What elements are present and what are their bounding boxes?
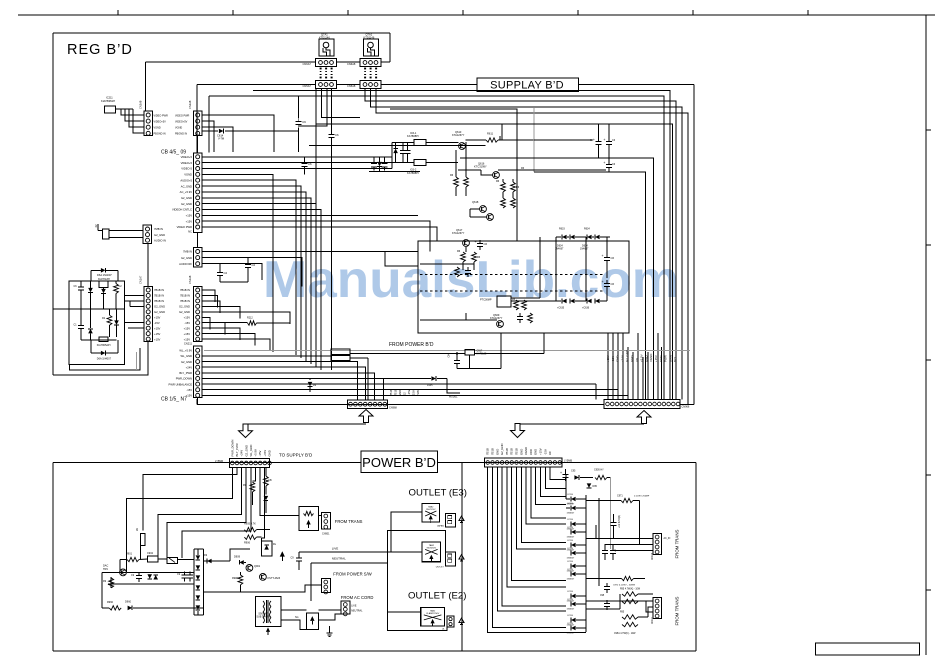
connector CN1A8 (194, 287, 203, 342)
svg-text:+15V: +15V (606, 355, 610, 362)
svg-text:1N4667: 1N4667 (567, 513, 575, 515)
capacitor C612 (331, 131, 333, 134)
svg-text:C6: C6 (308, 162, 312, 166)
resistor R906 (244, 535, 256, 539)
wire inlet row (420, 353, 465, 355)
svg-text:VIDEO+5: VIDEO+5 (181, 155, 193, 159)
svg-text:AC_GND: AC_GND (181, 184, 192, 188)
resistor R948 (109, 578, 114, 588)
wire bus y96 (209, 96, 664, 400)
svg-text:CN211: CN211 (184, 342, 193, 346)
svg-text:+15V: +15V (186, 219, 193, 223)
capacitor C6A1 (80, 284, 82, 287)
svg-text:CB 4/5_ 09: CB 4/5_ 09 (161, 150, 186, 156)
diode D948 (147, 574, 152, 579)
capacitor C957 C958 (606, 583, 608, 586)
diode D913 (308, 382, 313, 387)
connector CN3A8 (144, 111, 153, 136)
svg-text:GND: GND (534, 449, 538, 455)
svg-text:+15V: +15V (154, 326, 161, 330)
capacitor C622 (467, 267, 469, 270)
connector CN1A7 (144, 287, 153, 342)
resistor R952 (264, 476, 269, 486)
svg-text:D95: D95 (593, 485, 598, 488)
svg-text:VGND: VGND (184, 173, 192, 177)
svg-text:R633: R633 (559, 228, 565, 231)
svg-text:REG B’D: REG B’D (67, 42, 133, 58)
svg-text:US/CXT: US/CXT (436, 567, 445, 569)
resistor R901 (127, 557, 139, 561)
connector CN211 strip (194, 346, 203, 398)
svg-text:+: + (593, 138, 595, 142)
connector CN968 (348, 400, 388, 409)
wires CN2A8 to right (202, 115, 274, 152)
wires CN1A8 rows to right (202, 290, 215, 302)
svg-text:G2: G2 (403, 392, 407, 396)
regulator IC6-2 (414, 160, 426, 166)
wire rail y171 (369, 170, 420, 172)
svg-text:FROM AC CORD: FROM AC CORD (341, 595, 374, 600)
diode D6A0 top (101, 268, 106, 273)
svg-text:PWR: PWR (664, 355, 668, 362)
svg-text:TR9: TR9 (103, 568, 108, 571)
wire boxA bottom rail (81, 339, 117, 341)
svg-text:GND: GND (616, 356, 620, 362)
svg-text:-15V: -15V (412, 390, 416, 396)
svg-text:+15V: +15V (184, 326, 191, 330)
svg-text:7B1B IN: 7B1B IN (180, 294, 190, 298)
resistor R212 (248, 321, 257, 325)
svg-text:VIDEO-5: VIDEO-5 (181, 167, 192, 171)
svg-text:CC1B: CC1B (567, 527, 573, 529)
varistor VA901 (141, 533, 146, 545)
switch trigger symbol (280, 551, 285, 556)
resistor R623 R625 (461, 252, 466, 262)
svg-text:CC1B: CC1B (567, 561, 573, 563)
wires supply box bottom runs (420, 319, 497, 321)
svg-text:TAB2: TAB2 (428, 506, 434, 509)
wire CN1A7 bottom to reg border (53, 342, 148, 376)
svg-text:R905 4.7K: R905 4.7K (244, 523, 256, 526)
wire rail x599 (598, 498, 600, 586)
svg-text:-15V: -15V (154, 321, 160, 325)
REG B'D board outline (53, 32, 390, 34)
svg-text:PWR UNBALANCE: PWR UNBALANCE (169, 382, 193, 386)
svg-text:GND: GND (630, 356, 634, 362)
connector CN912 from-trans-1 (653, 534, 662, 555)
diode D6A4 (114, 320, 119, 325)
svg-text:-15V: -15V (543, 449, 547, 455)
down arrow to power right (511, 424, 525, 438)
svg-text:KTA1267Y: KTA1267Y (452, 133, 465, 137)
wire CN3A8 top feed (145, 62, 147, 111)
svg-text:KIA7808API: KIA7808API (101, 99, 115, 103)
svg-text:7B1B IN: 7B1B IN (154, 288, 164, 292)
filter block C902 (148, 556, 159, 562)
transistor Q618 (480, 206, 487, 213)
wire boxA feed rails (90, 270, 92, 281)
capacitor C615 (298, 96, 300, 118)
svg-text:PTC00MP: PTC00MP (480, 299, 492, 302)
svg-text:C6: C6 (611, 256, 615, 260)
svg-text:FROM TRANS: FROM TRANS (335, 519, 363, 524)
svg-text:+15V: +15V (184, 337, 191, 341)
svg-text:VIDEO PWR: VIDEO PWR (175, 114, 190, 117)
wires lower group to conn FT2 (586, 600, 653, 602)
connector CN966 long (604, 400, 680, 409)
wires CN901 (318, 515, 321, 517)
diode D6A5 bottom (101, 351, 106, 356)
svg-text:R906: R906 (244, 542, 251, 545)
svg-text:LY5MB: LY5MB (564, 460, 572, 463)
diode D909b (207, 559, 212, 564)
svg-text:7B1B: 7B1B (510, 448, 514, 455)
up arrow to CN968 (359, 410, 373, 423)
divider outlets (461, 463, 463, 651)
vertical rails diode matrix (585, 495, 587, 632)
svg-text:G2_GND: G2_GND (500, 443, 504, 455)
svg-text:G2_GND: G2_GND (181, 360, 192, 364)
connector CN905 ac-cord (341, 601, 350, 614)
wire bus from CN5A8 pins (365, 89, 676, 400)
inductor L951 (595, 475, 607, 479)
svg-text:BLY: BLY (673, 357, 677, 362)
transformer T901 (255, 596, 281, 626)
svg-text:WL_+5.9V: WL_+5.9V (179, 349, 192, 353)
svg-text:G2_GND: G2_GND (181, 202, 192, 206)
svg-text:GND: GND (519, 449, 523, 455)
svg-text:+C635: +C635 (557, 307, 565, 310)
wire CN2A8 to CN4A8 link (197, 136, 199, 154)
svg-text:SUB TRANS: SUB TRANS (256, 616, 270, 619)
svg-text:AUDIO IN: AUDIO IN (154, 238, 166, 242)
wire supply right edge (693, 85, 695, 405)
wires CN965 staircase (127, 468, 233, 569)
diode D949 (153, 575, 158, 580)
svg-text:G2_GND: G2_GND (154, 310, 165, 314)
svg-text:JAPAN: JAPAN (437, 525, 444, 528)
svg-text:+24V: +24V (186, 365, 193, 369)
svg-text:G2_GND: G2_GND (179, 310, 190, 314)
svg-text:PBGND IN: PBGND IN (154, 133, 166, 136)
title block placeholder (816, 643, 920, 655)
wires conn FT2 feed (619, 594, 621, 609)
page frame top ruler (18, 14, 935, 16)
wires IC211 to CN3A8 (116, 108, 134, 110)
wire row CN211 second (202, 355, 331, 357)
diode D614 (219, 129, 224, 134)
svg-text:G2_GND: G2_GND (154, 233, 165, 237)
POWER B'D board outline (53, 462, 361, 464)
svg-text:CN901: CN901 (322, 533, 330, 536)
svg-text:+15V: +15V (184, 332, 191, 336)
svg-text:7B1B IN: 7B1B IN (180, 299, 190, 303)
svg-text:950/250V: 950/250V (427, 548, 437, 550)
svg-text:KA7808PI: KA7808PI (407, 171, 419, 175)
svg-text:1N4667: 1N4667 (580, 248, 589, 251)
diode bridge box A (69, 281, 124, 364)
svg-text:R901: R901 (126, 553, 133, 556)
diode D635 D636 lower (562, 299, 567, 304)
svg-text:VDD: VDD (529, 449, 533, 455)
svg-text:ManualsLib.com: ManualsLib.com (263, 251, 679, 309)
svg-text:D6A 1N4007: D6A 1N4007 (97, 358, 112, 361)
svg-text:+: + (603, 138, 605, 142)
svg-text:CC1B: CC1B (567, 615, 573, 617)
wires CB45 staircase down (202, 174, 273, 352)
svg-text:OUTLET (E2): OUTLET (E2) (408, 591, 466, 602)
diode D6A3 (88, 329, 93, 334)
svg-text:-15V: -15V (184, 321, 190, 325)
svg-text:AUDIO RF: AUDIO RF (179, 262, 192, 266)
svg-text:CN968: CN968 (389, 407, 397, 410)
svg-text:CC1B: CC1B (567, 548, 573, 550)
resistor R951 (250, 482, 255, 492)
svg-text:+15V: +15V (407, 389, 411, 396)
connector CN965 power-left (230, 459, 270, 468)
resistor R627 (455, 267, 460, 277)
diode D909 (239, 560, 244, 565)
svg-text:VIDEO PWR: VIDEO PWR (154, 114, 169, 117)
svg-text:+: + (475, 240, 477, 244)
svg-text:7B1B IN: 7B1B IN (154, 294, 164, 298)
wire row CN211 diode branch (202, 378, 310, 380)
wire row CN211 first gray (204, 349, 690, 351)
svg-text:CN6A7: CN6A7 (303, 62, 312, 66)
wires control box internals (465, 247, 467, 252)
wire bottom rail left power (108, 583, 194, 585)
capacitor C632 (608, 124, 610, 138)
svg-text:KIA7805API: KIA7805API (97, 344, 111, 347)
dashed control wires (420, 274, 603, 276)
svg-text:R634: R634 (584, 228, 590, 231)
svg-text:CC1B: CC1B (567, 503, 573, 505)
resistor R905 (244, 528, 256, 532)
wires mid supply (202, 251, 418, 253)
relay boxes AC (331, 349, 350, 355)
svg-text:CN911: CN911 (652, 616, 654, 624)
svg-text:R212: R212 (247, 317, 253, 320)
svg-text:VA: VA (136, 528, 139, 531)
svg-text:Q901: Q901 (254, 565, 261, 568)
svg-text:+15V: +15V (539, 448, 543, 455)
svg-text:V-7M: V-7M (218, 137, 224, 141)
connector CN5A7 (320, 74, 322, 76)
svg-text:+: + (560, 471, 562, 475)
outlet face E2 (447, 616, 454, 627)
svg-text:FROM POWER S/W: FROM POWER S/W (333, 571, 371, 576)
wires power left rails (126, 568, 128, 572)
svg-text:C902: C902 (147, 552, 154, 555)
wire arrow link left (246, 423, 367, 425)
ground sym power (328, 629, 330, 633)
svg-text:VIDEO PWR: VIDEO PWR (177, 225, 192, 229)
capacitor C951 (565, 469, 567, 471)
svg-text:C6: C6 (611, 282, 615, 286)
svg-text:POWER B’D: POWER B’D (362, 455, 436, 470)
svg-text:C95: C95 (600, 595, 605, 597)
mid rail box A (53, 308, 125, 310)
inductor C972 (622, 576, 634, 580)
transistor Q901 (246, 565, 253, 572)
svg-text:SG: SG (295, 616, 299, 619)
resistor R611 (486, 138, 498, 142)
svg-text:VGND: VGND (649, 354, 653, 362)
svg-text:C6: C6 (484, 242, 488, 246)
svg-text:G2_GND: G2_GND (179, 305, 190, 309)
svg-text:WL_GND: WL_GND (181, 354, 193, 358)
wire to caps (534, 139, 592, 141)
resistor R641 R642 (514, 300, 519, 310)
svg-text:CN1A7: CN1A7 (139, 275, 143, 284)
svg-text:R908: R908 (232, 577, 238, 580)
svg-text:CN912: CN912 (652, 552, 654, 560)
outlet face E3a (446, 513, 456, 527)
svg-text:VGND: VGND (175, 127, 182, 130)
capacitor C619 (407, 143, 409, 148)
wires diode column (566, 498, 570, 500)
wire rows CN211 long right (202, 383, 596, 385)
connector CN2A8 (194, 111, 203, 136)
wire arrow link right (518, 423, 645, 425)
svg-text:+C2 4700(K): +C2 4700(K) (619, 515, 621, 528)
svg-text:+15V: +15V (263, 450, 267, 457)
svg-text:NEUTRAL: NEUTRAL (351, 610, 363, 613)
svg-text:VGND: VGND (524, 447, 528, 455)
svg-text:-15V: -15V (258, 450, 262, 456)
svg-text:G2_GND: G2_GND (154, 305, 165, 309)
svg-text:+C636: +C636 (582, 307, 590, 310)
svg-text:+15V: +15V (154, 337, 161, 341)
label box POWER B'D (361, 451, 438, 473)
svg-text:7B1B: 7B1B (515, 448, 519, 455)
svg-text:7B1B: 7B1B (389, 389, 393, 396)
connector CN6A8 (360, 59, 381, 67)
svg-text:GND: GND (495, 449, 499, 455)
svg-text:L935: L935 (427, 384, 433, 387)
svg-text:KSTT-4623: KSTT-4623 (268, 577, 281, 580)
diode D960 (128, 606, 133, 611)
wire sw trans top (193, 592, 195, 615)
wire right bus y158 (460, 158, 654, 400)
svg-text:AC_IN: AC_IN (664, 537, 671, 540)
connector CN964 supply-link (485, 458, 563, 467)
outlet E3a (422, 504, 439, 523)
svg-text:+15V: +15V (186, 394, 193, 398)
wires bridge to switch circuit (204, 560, 231, 562)
capacitor C955 (612, 544, 614, 547)
svg-text:C971: C971 (617, 495, 623, 498)
svg-text:+5.9V: +5.9V (640, 354, 644, 362)
svg-text:-15V: -15V (186, 388, 192, 392)
bridge rails (193, 549, 195, 615)
svg-text:KTC3199Y: KTC3199Y (474, 165, 487, 169)
svg-text:+: + (603, 161, 605, 165)
capacitor C948 (138, 572, 140, 575)
capacitor C2B2 (247, 258, 249, 261)
svg-text:VIDEOH CNTLC: VIDEOH CNTLC (172, 208, 192, 212)
page frame right ruler (925, 15, 927, 655)
label box SUPPLAY B'D (477, 78, 579, 92)
bridge rectifier D901-D906 (196, 555, 201, 560)
across-cap box (299, 507, 319, 531)
svg-text:CC1B: CC1B (567, 494, 573, 496)
resistor R908 (238, 575, 243, 585)
resistor R960 (109, 606, 121, 610)
svg-text:DWN: DWN (668, 355, 672, 362)
diode D6A2 (101, 289, 106, 294)
svg-text:VD: VD (635, 358, 639, 362)
relay D907 box (261, 541, 272, 556)
svg-text:D909: D909 (234, 555, 241, 558)
up arrow to CN966 (637, 411, 651, 424)
svg-text:CC1B: CC1B (567, 519, 573, 521)
svg-text:PWR_DOWN: PWR_DOWN (230, 440, 234, 457)
connector CN911 from-trans-2 (653, 598, 662, 619)
wires CN965 right pins (252, 468, 255, 482)
svg-text:VIDEO+5: VIDEO+5 (181, 161, 193, 165)
svg-text:PWR: PWR (416, 389, 420, 396)
wire CN5A7 pin drops (315, 89, 317, 362)
diode D952 (587, 483, 592, 488)
svg-text:950/125V: 950/125V (426, 509, 436, 511)
svg-text:+15V: +15V (654, 355, 658, 362)
outlet E2 (421, 607, 445, 626)
wire diode column verticals (555, 237, 557, 301)
svg-text:C6: C6 (335, 133, 339, 137)
wires outlet E2 (387, 563, 420, 612)
connector CN2A7 small (143, 225, 152, 244)
svg-text:MODEL: MODEL (449, 396, 458, 399)
svg-text:PBGND IN: PBGND IN (175, 133, 187, 136)
svg-text:+15V: +15V (184, 315, 191, 319)
wires drops to CN966 (607, 333, 609, 400)
connector CN5A8 (364, 74, 366, 76)
svg-text:LIVE: LIVE (332, 547, 339, 551)
svg-text:C6: C6 (302, 120, 306, 124)
wire right bus y172 (534, 172, 645, 400)
svg-text:C64: C64 (449, 353, 451, 358)
capacitor C2B1 (219, 264, 221, 269)
svg-text:PWR_DOWN: PWR_DOWN (176, 377, 192, 381)
svg-text:SUPPLAY B’D: SUPPLAY B’D (490, 80, 564, 92)
svg-text:Q618: Q618 (472, 200, 479, 204)
svg-text:KA7808PI: KA7808PI (407, 134, 419, 138)
diode D951b (574, 475, 579, 480)
svg-text:1N4667: 1N4667 (567, 609, 575, 611)
svg-text:CC1B: CC1B (567, 569, 573, 571)
diode D613 (377, 162, 382, 167)
svg-text:G2_GND: G2_GND (181, 196, 192, 200)
svg-text:1N4667: 1N4667 (567, 558, 575, 560)
control block box (418, 241, 629, 333)
svg-text:TO SUPPLY B’D: TO SUPPLY B’D (279, 453, 313, 458)
svg-text:G2_GND: G2_GND (244, 445, 248, 457)
svg-text:FB: FB (269, 479, 272, 482)
svg-text:FROM TRANS: FROM TRANS (675, 529, 680, 558)
svg-text:GND: GND (268, 450, 272, 456)
svg-text:AUDIO+5: AUDIO+5 (180, 178, 192, 182)
regulator IC6A bottom (99, 337, 108, 342)
svg-text:0.1/2KV 250MF: 0.1/2KV 250MF (634, 496, 650, 498)
wire bus y90 (253, 91, 670, 400)
svg-text:NEUTRAL: NEUTRAL (332, 557, 346, 561)
svg-text:G2_GND: G2_GND (625, 350, 629, 362)
line filter box (167, 557, 178, 563)
svg-text:+24V: +24V (620, 355, 624, 362)
svg-text:GND: GND (659, 356, 663, 362)
wires CN964 fan (488, 467, 566, 632)
